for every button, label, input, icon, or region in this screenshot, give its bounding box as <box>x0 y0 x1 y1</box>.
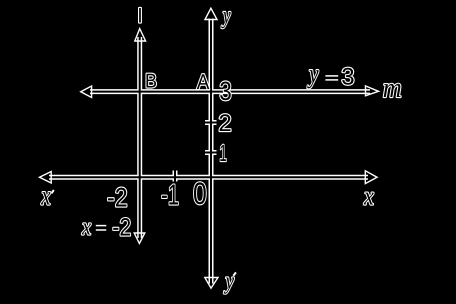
svg-text:0: 0 <box>193 176 207 211</box>
svg-text:1: 1 <box>219 140 227 166</box>
svg-text:B: B <box>145 71 157 93</box>
svg-text:x: x <box>40 180 50 210</box>
svg-text:-2: -2 <box>112 214 131 242</box>
svg-text:-1: -1 <box>161 180 179 212</box>
svg-text:y: y <box>221 3 231 29</box>
svg-text:2: 2 <box>218 110 231 137</box>
svg-text:A: A <box>197 70 210 94</box>
svg-text:3: 3 <box>219 76 232 106</box>
svg-text:-2: -2 <box>107 183 128 213</box>
svg-text:x: x <box>81 215 91 241</box>
svg-text:y: y <box>224 269 235 295</box>
svg-text:y: y <box>307 59 319 89</box>
svg-text:m: m <box>383 73 402 104</box>
svg-text:3: 3 <box>341 64 354 91</box>
svg-text:l: l <box>138 6 142 28</box>
svg-text:x: x <box>363 181 374 210</box>
